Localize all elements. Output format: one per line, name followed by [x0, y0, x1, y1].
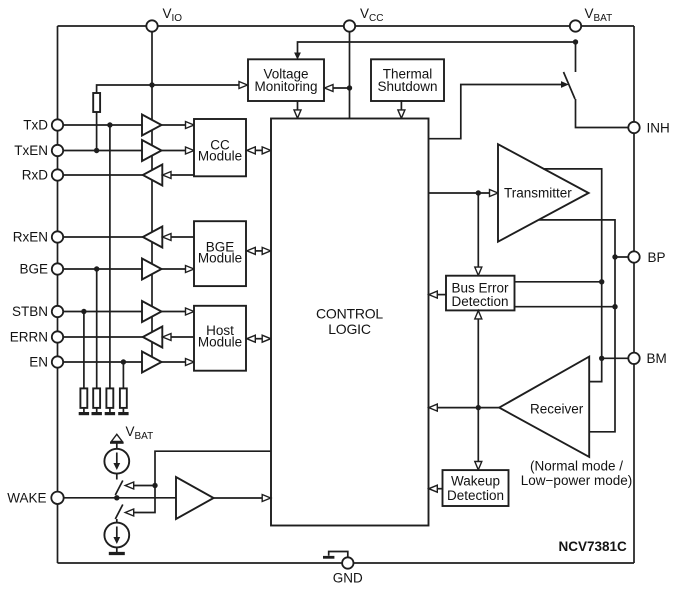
node VCC junction	[347, 85, 352, 90]
Voltage Monitoring box U4	[248, 59, 324, 101]
svg-text:Module: Module	[198, 250, 242, 265]
arrow Voltage Monitoring to Control Logic	[297, 101, 299, 111]
node TxD junction	[107, 122, 112, 127]
arrow into BED bottom	[475, 311, 482, 319]
svg-text:V: V	[360, 6, 369, 21]
svg-text:Detection: Detection	[447, 488, 504, 503]
pin BM	[628, 353, 639, 364]
wire STBN buffer to Host	[162, 311, 187, 313]
node BGE junction	[94, 266, 99, 271]
node VBAT junction	[573, 39, 578, 44]
svg-text:Shutdown: Shutdown	[377, 79, 437, 94]
wire BED right upper to BM net	[514, 281, 602, 283]
ground stub I2	[116, 547, 118, 552]
arrow into Control Logic (receiver)	[429, 404, 438, 411]
pin VIO	[146, 20, 157, 31]
outer border bottom wire	[58, 562, 635, 564]
pin TxD	[52, 119, 63, 130]
ground stub R5	[122, 408, 124, 412]
node BM pin junction	[599, 356, 604, 361]
wire TxD buffer to CC	[162, 124, 187, 126]
wire Transmitter to BP line	[539, 220, 615, 432]
arrow into CC (TxEN)	[186, 147, 195, 154]
ground stub R2	[83, 408, 85, 412]
arrow into RxEN buffer	[163, 234, 172, 241]
wire EN pulldown vertical	[122, 362, 124, 388]
resistor R1	[93, 93, 100, 112]
pin RxD	[52, 169, 63, 180]
pin EN	[52, 356, 63, 367]
arrow into Transmitter	[490, 190, 499, 197]
arrow into BGE module	[186, 266, 195, 273]
arrow into Voltage Monitoring right	[325, 85, 334, 92]
svg-text:(Normal mode /: (Normal mode /	[530, 459, 623, 474]
pin WAKE	[51, 492, 63, 504]
node BP pin junction	[612, 254, 617, 259]
pin VCC	[344, 20, 355, 31]
buffer TxEN	[142, 140, 162, 161]
wire junction to Wakeup Detection	[477, 408, 479, 462]
node BP/BED junction	[612, 304, 617, 309]
wire TxD	[58, 124, 143, 126]
ground bar R2	[79, 412, 89, 415]
pin GND	[342, 557, 353, 568]
svg-text:EN: EN	[29, 355, 48, 370]
resistor R4 (TxD)	[106, 388, 113, 408]
svg-text:Detection: Detection	[451, 294, 508, 309]
pin TxEN	[52, 145, 63, 156]
wake buffer A3	[176, 477, 214, 519]
GND internal symbol	[329, 552, 348, 558]
Bus Error Detection box U7	[446, 276, 515, 311]
transmitter amplifier A1	[498, 144, 589, 242]
wire Transmitter to BM line	[543, 169, 601, 382]
arrow into CC (TxD)	[186, 122, 195, 129]
svg-text:NCV7381C: NCV7381C	[559, 539, 628, 554]
svg-text:Transmitter: Transmitter	[504, 186, 572, 201]
wire TxD pulldown vertical	[109, 125, 111, 388]
ground stub R4	[109, 408, 111, 412]
pin INH	[628, 122, 639, 133]
arrow into Host (EN)	[186, 359, 195, 366]
outer border left wire	[57, 26, 59, 563]
svg-text:Module: Module	[198, 149, 242, 164]
svg-text:BGE: BGE	[19, 262, 48, 277]
svg-text:Wakeup: Wakeup	[451, 474, 500, 489]
wire TxEN buffer to CC	[162, 150, 187, 152]
pin BGE	[52, 263, 63, 274]
wire BM pin	[602, 357, 634, 359]
arrow into Control Logic (wakeup)	[429, 485, 438, 492]
switch blade lower (wake)	[115, 505, 123, 520]
node STBN junction	[81, 309, 86, 314]
node WAKE junction	[114, 495, 119, 500]
arrow into Control Logic (BED)	[429, 291, 438, 298]
wire Receiver output to Control Logic	[437, 407, 499, 409]
wire STBN	[58, 311, 143, 313]
ground stub R3	[96, 408, 98, 412]
wire Host to ERRN buffer	[171, 336, 195, 338]
Thermal Shutdown box U5	[371, 59, 444, 101]
svg-text:GND: GND	[333, 571, 363, 586]
wire ERRN buffer to pin	[58, 336, 143, 338]
svg-text:RxEN: RxEN	[13, 230, 48, 245]
pin STBN	[52, 306, 63, 317]
wire receiver junction to BED bottom	[477, 318, 479, 407]
wire RxEN buffer to pin	[58, 236, 143, 238]
wire junction to Bus Error Detection top	[477, 193, 479, 268]
wire WAKE	[58, 497, 177, 499]
outer border top wire	[58, 25, 635, 27]
svg-text:Receiver: Receiver	[530, 402, 584, 417]
wire R1 to TxEN	[96, 112, 98, 151]
bidir arrow Host to Control Logic	[252, 338, 265, 340]
wire control to upper switch	[133, 485, 155, 487]
arrow VBAT into Voltage Monitoring top (filled)	[294, 53, 301, 60]
svg-text:STBN: STBN	[12, 304, 48, 319]
arrow INH switch control (filled)	[561, 81, 569, 88]
buffer RxD	[143, 165, 163, 186]
svg-text:Module: Module	[198, 334, 242, 349]
svg-text:WAKE: WAKE	[7, 491, 46, 506]
node TxEN junction	[94, 148, 99, 153]
CC Module box U1	[194, 119, 246, 176]
buffer BGE	[142, 259, 162, 280]
wire switch to current source I2	[116, 519, 118, 523]
buffer EN	[142, 352, 162, 373]
svg-text:BAT: BAT	[594, 13, 613, 24]
current source I1	[104, 449, 129, 474]
wire EN buffer to Host	[162, 361, 187, 363]
arrow into ERRN buffer	[163, 334, 172, 341]
BGE Module box U2	[194, 221, 246, 286]
bidir arrow BGE to Control Logic	[252, 250, 265, 252]
resistor R2 (STBN)	[80, 388, 87, 408]
wire wake switch control	[133, 451, 271, 512]
ground bar R3	[92, 412, 102, 415]
wire BED to Control Logic	[436, 294, 446, 296]
node wake switch control junction	[152, 483, 157, 488]
svg-text:BM: BM	[647, 351, 667, 366]
VBAT arrow symbol (wake current source)	[111, 434, 122, 441]
wire BGE pulldown vertical	[96, 269, 98, 388]
current source I2	[104, 523, 129, 548]
svg-text:Low−power mode): Low−power mode)	[521, 473, 632, 488]
ground bar R5	[118, 412, 128, 415]
node BM/BED junction	[599, 279, 604, 284]
wire BGE module to RxEN buffer	[171, 236, 195, 238]
node Transmitter input junction	[476, 190, 481, 195]
wire INH switch to INH pin	[576, 99, 635, 128]
svg-text:V: V	[585, 6, 594, 21]
wire VCC to Voltage Monitoring	[332, 87, 350, 89]
svg-text:CONTROL: CONTROL	[316, 305, 383, 321]
switch blade upper (wake)	[115, 481, 123, 496]
GND symbol bar	[323, 556, 334, 559]
svg-text:BP: BP	[648, 250, 666, 265]
arrow into RxD buffer	[163, 172, 172, 179]
svg-text:IO: IO	[172, 13, 183, 24]
pin BP	[628, 251, 639, 262]
arrow Thermal Shutdown to Control Logic	[400, 100, 402, 111]
svg-text:V: V	[126, 424, 135, 439]
svg-text:Monitoring: Monitoring	[254, 79, 317, 94]
outer border right wire	[633, 26, 635, 563]
buffer RxEN	[143, 227, 163, 248]
wire Control Logic to Transmitter	[429, 192, 491, 194]
buffer STBN	[142, 301, 162, 322]
wire VIO to Voltage Monitoring	[97, 85, 240, 93]
svg-text:TxD: TxD	[23, 118, 48, 133]
svg-text:ERRN: ERRN	[10, 330, 48, 345]
node EN junction	[121, 359, 126, 364]
svg-text:INH: INH	[647, 121, 670, 136]
arrow into Bus Error Detection top	[475, 267, 482, 275]
arrow at lower wake switch	[125, 509, 134, 516]
svg-text:V: V	[163, 6, 172, 21]
wire BED right lower to BP net	[514, 306, 615, 308]
arrow into Control Logic (wake)	[262, 495, 271, 502]
svg-text:BAT: BAT	[135, 431, 154, 442]
wire BP pin	[615, 256, 634, 258]
wire INH switch control	[429, 85, 562, 139]
arrow at upper wake switch	[125, 482, 134, 489]
node receiver output junction	[476, 405, 481, 410]
Host Module box U3	[194, 306, 246, 371]
wire wake buffer to Control Logic	[214, 497, 263, 499]
svg-text:TxEN: TxEN	[14, 143, 48, 158]
arrow into Host (STBN)	[186, 308, 195, 315]
ground bar I2	[109, 552, 125, 555]
wire VIO vertical	[151, 26, 153, 360]
wire CC to RxD buffer	[171, 174, 195, 176]
wire RxD buffer to pin	[58, 174, 143, 176]
buffer TxD	[142, 115, 162, 136]
wire VBAT rail	[298, 42, 576, 54]
resistor R3 (BGE)	[93, 388, 100, 408]
resistor R5 (EN)	[120, 388, 127, 408]
wire BGE buffer to module	[162, 268, 187, 270]
wire EN	[58, 361, 143, 363]
bidir arrow CC to Control Logic	[252, 149, 265, 151]
wire VCC vertical	[349, 26, 351, 119]
Wakeup Detection box U8	[443, 470, 509, 506]
ground bar R4	[105, 412, 115, 415]
pin ERRN	[52, 331, 63, 342]
wire STBN pulldown vertical	[83, 312, 85, 389]
pin VBAT	[570, 20, 581, 31]
Control Logic box U6	[271, 119, 429, 526]
wire VBAT symbol to current source	[116, 444, 118, 450]
wire Wakeup Detection to Control Logic	[436, 488, 443, 490]
wire current source to switch	[116, 474, 118, 480]
arrow into Wakeup Detection top	[475, 462, 482, 470]
switch blade INH	[564, 72, 576, 99]
pin RxEN	[52, 231, 63, 242]
node VIO junction	[149, 82, 154, 87]
wire BGE	[58, 268, 143, 270]
wire VBAT to INH switch	[575, 42, 577, 72]
arrow into Voltage Monitoring left	[239, 82, 248, 89]
svg-text:LOGIC: LOGIC	[328, 321, 371, 337]
receiver amplifier A2	[499, 357, 589, 457]
svg-text:RxD: RxD	[22, 168, 48, 183]
svg-text:CC: CC	[369, 13, 383, 24]
buffer ERRN	[143, 327, 163, 348]
wire TxEN	[58, 150, 143, 152]
